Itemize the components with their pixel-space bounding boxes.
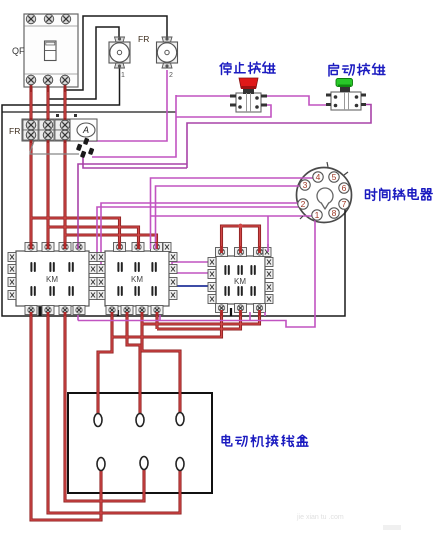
svg-text:KM: KM (46, 275, 58, 284)
svg-text:1: 1 (315, 210, 320, 220)
svg-text:7: 7 (342, 199, 347, 209)
svg-text:6: 6 (342, 183, 347, 193)
svg-text:1: 1 (121, 72, 125, 79)
svg-text:jie xian tu .com: jie xian tu .com (296, 514, 344, 521)
svg-text:KM: KM (234, 277, 246, 286)
svg-text:2: 2 (301, 199, 306, 209)
svg-text:8: 8 (332, 208, 337, 218)
svg-text:A: A (82, 125, 89, 135)
svg-text:5: 5 (332, 172, 337, 182)
svg-text:FR: FR (138, 34, 149, 44)
svg-text:3: 3 (303, 180, 308, 190)
svg-text:2: 2 (169, 72, 173, 79)
svg-text:4: 4 (316, 172, 321, 182)
svg-text:QF: QF (12, 46, 25, 56)
svg-text:FR: FR (9, 126, 20, 136)
